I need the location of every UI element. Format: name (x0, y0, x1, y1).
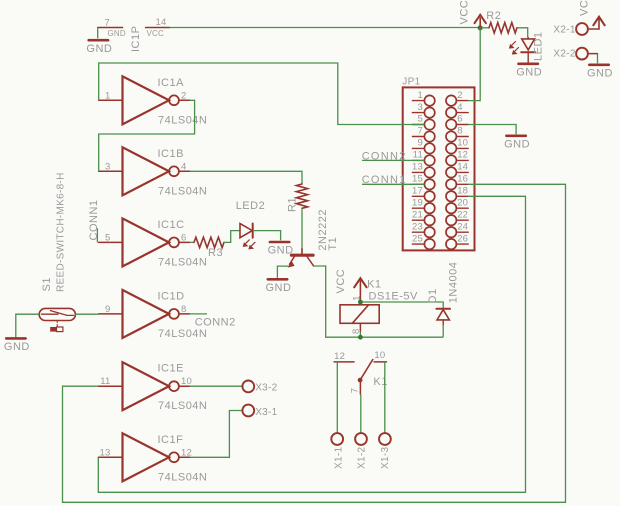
inverter IC1A (74LS04N) (99, 76, 208, 126)
terminal X3-1 (242, 405, 277, 418)
wire IC1B output to R1 (190, 171, 302, 184)
net CONN2 at IC1D output (190, 314, 236, 329)
JP1 pin 22 (446, 209, 468, 225)
svg-text:IC1D: IC1D (158, 290, 185, 302)
wire relay pin1 to D1 (360, 302, 443, 309)
svg-text:5: 5 (105, 232, 110, 243)
svg-text:S1: S1 (41, 277, 53, 291)
ground (587, 65, 613, 80)
wire S1 to ground (16, 314, 39, 337)
diode D1 (1N4004) (436, 309, 450, 325)
power VCC (475, 15, 486, 28)
svg-text:2: 2 (181, 90, 186, 101)
svg-text:R1: R1 (286, 197, 298, 212)
svg-text:GND: GND (587, 67, 613, 79)
node VCC junction (478, 25, 483, 30)
transistor T1 (2N2222) (288, 249, 315, 268)
JP1 pin 23 (412, 221, 435, 237)
svg-text:X1-1: X1-1 (333, 447, 344, 469)
JP1 pin 21 (412, 209, 435, 225)
wire (597, 54, 599, 64)
svg-text:13: 13 (100, 447, 111, 458)
terminal X3-2 (242, 381, 277, 394)
relay coil K1 (DS1E-5V) (340, 279, 418, 332)
reed switch S1 (REED-SWITCH-MK6-8-H) (39, 308, 75, 331)
svg-text:74LS04N: 74LS04N (158, 471, 207, 483)
wire VCC net (170, 27, 481, 29)
JP1 pin 17 (412, 186, 435, 202)
svg-text:26: 26 (457, 233, 468, 244)
svg-text:GND: GND (4, 341, 30, 353)
svg-text:IC1P: IC1P (130, 26, 142, 52)
svg-text:3: 3 (418, 102, 423, 113)
JP1 pin 7 (412, 126, 434, 142)
svg-text:4: 4 (181, 161, 186, 172)
svg-text:1: 1 (418, 90, 423, 101)
svg-text:VCC: VCC (459, 0, 471, 25)
terminal X2-1 (553, 23, 599, 35)
svg-text:11: 11 (100, 376, 110, 387)
svg-text:X2-2: X2-2 (553, 48, 575, 59)
JP1 pin 18 (446, 186, 468, 202)
svg-text:GND: GND (504, 138, 530, 150)
svg-text:20: 20 (457, 197, 468, 208)
svg-text:9: 9 (418, 138, 423, 149)
power VCC (354, 278, 366, 294)
JP1 pin 3 (412, 102, 434, 118)
node (358, 300, 363, 305)
svg-text:74LS04N: 74LS04N (158, 400, 207, 412)
svg-text:5: 5 (418, 114, 423, 125)
LED LED1 (509, 38, 535, 63)
svg-text:19: 19 (412, 197, 423, 208)
JP1 pin 15 (412, 174, 435, 190)
svg-text:17: 17 (412, 186, 423, 197)
svg-text:13: 13 (412, 162, 423, 173)
svg-text:VCC: VCC (335, 269, 347, 294)
svg-text:CONN2: CONN2 (195, 317, 236, 329)
wire (97, 28, 99, 39)
JP1 pin 11 (412, 150, 434, 166)
wire pin6 to GND (468, 125, 516, 135)
svg-text:X3-2: X3-2 (255, 383, 277, 394)
inverter IC1F (74LS04N) (99, 433, 208, 483)
svg-text:LED2: LED2 (236, 200, 266, 212)
svg-text:T1: T1 (327, 237, 339, 251)
wire IC1A output to IC1B input (99, 100, 195, 171)
JP1 pin 8 (446, 126, 468, 142)
net CONN1 at pin 15 (362, 174, 425, 186)
svg-text:X1-3: X1-3 (380, 447, 391, 469)
JP1 pin 10 (446, 138, 468, 154)
wire T1 collector to relay net (314, 266, 444, 337)
net CONN2 at pin 11 (362, 150, 425, 162)
svg-text:74LS04N: 74LS04N (158, 114, 207, 126)
ground (266, 279, 292, 294)
svg-text:8: 8 (457, 126, 462, 137)
svg-text:CONN1: CONN1 (88, 199, 100, 240)
node (358, 335, 363, 340)
wire pin18 to IC1F input (inner loop) (98, 196, 525, 492)
svg-text:GND: GND (266, 282, 292, 294)
svg-text:7: 7 (349, 388, 360, 393)
ground (504, 136, 530, 151)
svg-text:74LS04N: 74LS04N (158, 256, 207, 268)
wire T1 emitter to ground (277, 266, 288, 278)
JP1 pin 14 (446, 162, 468, 178)
JP1 pin 1 (412, 90, 434, 106)
svg-text:1: 1 (105, 90, 110, 101)
svg-text:GND: GND (108, 29, 126, 38)
JP1 pin 20 (446, 197, 468, 213)
svg-text:VCC: VCC (147, 29, 165, 38)
svg-text:7: 7 (105, 18, 110, 29)
JP1 pin 19 (412, 197, 435, 213)
terminal X1-2 (355, 433, 367, 445)
JP1 pin 5 (412, 114, 434, 130)
wire S1 to IC1D input (75, 313, 98, 315)
svg-text:IC1A: IC1A (158, 77, 185, 89)
svg-text:23: 23 (412, 221, 423, 232)
JP1 pin 9 (412, 138, 434, 154)
svg-text:VCC: VCC (579, 0, 591, 16)
JP1 pin 25 (412, 233, 435, 249)
svg-text:24: 24 (457, 221, 468, 232)
svg-text:IC1B: IC1B (158, 148, 184, 160)
svg-text:10: 10 (457, 138, 468, 149)
JP1 pin 2 (446, 90, 468, 106)
svg-text:11: 11 (413, 150, 423, 161)
resistor R1 (296, 184, 307, 208)
svg-text:12: 12 (334, 351, 345, 362)
svg-text:IC1E: IC1E (158, 363, 184, 375)
JP1 pin 24 (446, 221, 468, 237)
svg-text:REED-SWITCH-MK6-8-H: REED-SWITCH-MK6-8-H (56, 172, 67, 292)
svg-text:15: 15 (412, 174, 423, 185)
svg-text:74LS04N: 74LS04N (158, 328, 207, 340)
JP1 pin 12 (446, 150, 468, 166)
wire contact 7 to X1-2 (360, 394, 362, 433)
wire D1 anode to net (442, 325, 444, 337)
svg-text:22: 22 (457, 209, 468, 220)
svg-text:IC1F: IC1F (158, 434, 184, 446)
svg-text:4: 4 (457, 102, 462, 113)
svg-text:7: 7 (418, 126, 423, 137)
svg-text:CONN2: CONN2 (362, 150, 407, 162)
wire IC1F output to X3-1 (190, 411, 243, 458)
ground (268, 242, 294, 257)
wire IC1A input to JP1 pin5 (99, 63, 425, 125)
inverter IC1C (74LS04N) (99, 218, 208, 268)
wire (224, 231, 240, 243)
svg-text:25: 25 (412, 233, 423, 244)
power VCC (593, 17, 604, 29)
svg-text:14: 14 (156, 17, 167, 28)
svg-text:6: 6 (457, 114, 462, 125)
svg-text:X2-1: X2-1 (553, 25, 575, 36)
svg-text:18: 18 (457, 186, 468, 197)
inverter IC1E (74LS04N) (99, 362, 208, 412)
wire contact 12 to X1-1 (336, 362, 338, 433)
svg-text:16: 16 (457, 174, 468, 185)
svg-text:R3: R3 (208, 247, 223, 259)
relay contact K1 (334, 350, 388, 394)
wire pin16 to IC1E input (outer loop) (63, 184, 566, 502)
svg-text:8: 8 (181, 304, 186, 315)
inverter IC1D (74LS04N) (99, 290, 208, 340)
net CONN1 at IC1C input (88, 199, 100, 242)
terminal X1-3 (379, 433, 391, 445)
connector JP1 (402, 77, 474, 251)
svg-text:X3-1: X3-1 (255, 407, 277, 418)
wire contact 10 to X1-3 (384, 362, 386, 433)
wire (253, 231, 281, 241)
svg-text:D1: D1 (427, 288, 439, 303)
wire pin2 to VCC (468, 28, 480, 101)
svg-text:X1-2: X1-2 (356, 447, 367, 469)
wire relay pin8 to net (359, 332, 361, 338)
wire IC1E output to X3-2 (190, 385, 243, 387)
terminal X2-2 (553, 48, 597, 60)
wire (517, 28, 528, 38)
JP1 pin 4 (446, 102, 468, 118)
IC1P power pin 7 (GND) (98, 18, 126, 39)
JP1 pin 13 (412, 162, 435, 178)
ground (516, 64, 542, 79)
ground (4, 338, 30, 353)
svg-text:K1: K1 (367, 279, 381, 291)
LED LED2 (236, 200, 266, 250)
svg-text:74LS04N: 74LS04N (158, 185, 207, 197)
JP1 pin 16 (446, 174, 468, 190)
svg-text:9: 9 (105, 304, 110, 315)
svg-text:3: 3 (105, 161, 110, 172)
svg-text:GND: GND (516, 66, 542, 78)
svg-text:JP1: JP1 (402, 77, 420, 88)
wire R1 to T1 base (301, 208, 303, 253)
svg-text:1N4004: 1N4004 (447, 262, 459, 304)
resistor R2 (483, 10, 517, 33)
IC1P power pin 14 (VCC) (146, 17, 170, 38)
JP1 pin 26 (446, 233, 468, 249)
ground (86, 40, 112, 55)
svg-text:LED1: LED1 (533, 31, 545, 61)
svg-text:IC1C: IC1C (158, 219, 185, 231)
svg-text:CONN1: CONN1 (362, 174, 407, 186)
inverter IC1B (74LS04N) (99, 147, 208, 197)
svg-text:10: 10 (374, 350, 385, 361)
terminal X1-1 (331, 433, 343, 445)
svg-text:R2: R2 (486, 10, 501, 22)
svg-text:GND: GND (86, 43, 112, 55)
svg-text:12: 12 (457, 150, 468, 161)
JP1 pin 6 (446, 114, 468, 130)
svg-text:2: 2 (457, 90, 462, 101)
svg-text:21: 21 (412, 209, 423, 220)
resistor R3 (190, 237, 224, 259)
svg-text:DS1E-5V: DS1E-5V (369, 290, 419, 302)
svg-text:K1: K1 (373, 376, 387, 388)
svg-text:GND: GND (268, 245, 294, 257)
svg-text:6: 6 (181, 232, 186, 243)
svg-text:14: 14 (457, 162, 468, 173)
